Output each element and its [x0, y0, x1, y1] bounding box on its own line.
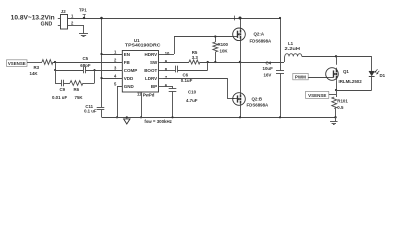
wire C4 branch	[280, 18, 282, 71]
svg-text:75K: 75K	[75, 95, 84, 100]
capacitor C9	[52, 80, 67, 100]
wire R3 to FB	[53, 62, 122, 64]
junction VDD	[100, 77, 102, 79]
svg-text:PWM: PWM	[295, 74, 306, 79]
svg-text:R3: R3	[34, 65, 40, 70]
svg-text:0.01 uF: 0.01 uF	[52, 95, 67, 100]
junction Vin-VDD	[100, 17, 103, 20]
transistor Q2B	[233, 93, 269, 108]
inductor L1	[285, 41, 302, 56]
wire ground rail	[102, 117, 336, 119]
svg-text:C6: C6	[183, 72, 189, 77]
wire C9 to R6	[64, 83, 71, 85]
svg-text:PwPd: PwPd	[143, 93, 155, 98]
wire COMP bar	[94, 70, 96, 83]
capacitor C11	[84, 104, 104, 117]
junction Q2 midpoint	[239, 61, 241, 63]
wire FB bar	[55, 62, 57, 83]
svg-text:COMP: COMP	[124, 68, 138, 73]
svg-text:0.5: 0.5	[337, 105, 344, 110]
svg-text:Q2:B: Q2:B	[252, 96, 263, 101]
wire SW row right	[200, 62, 284, 64]
capacitor C10	[169, 89, 198, 118]
wire Q2B source	[240, 105, 242, 117]
junction R100-SW	[214, 61, 216, 63]
ground triangle	[124, 116, 130, 124]
junction PwPd-rail	[140, 116, 142, 118]
wire BP pin	[164, 86, 173, 89]
resistor R5	[189, 50, 200, 64]
svg-text:J2: J2	[61, 9, 66, 14]
resistor R101	[332, 97, 349, 117]
svg-text:fsw = 300kHz: fsw = 300kHz	[144, 119, 172, 124]
svg-text:4.7uF: 4.7uF	[186, 98, 198, 103]
connector J2	[58, 9, 68, 29]
transistor Q1	[326, 68, 363, 84]
wire J2 pin2 to ground	[68, 25, 84, 34]
wire output to D1	[371, 56, 373, 71]
wire Q2B drain	[240, 62, 242, 93]
svg-text:68pF: 68pF	[80, 63, 91, 68]
svg-text:C9: C9	[60, 87, 66, 92]
junction R101-rail	[334, 116, 336, 118]
svg-text:10: 10	[165, 51, 170, 56]
svg-text:VDD: VDD	[124, 76, 134, 81]
svg-text:HDRV: HDRV	[145, 52, 158, 57]
resistor R3	[30, 60, 54, 76]
svg-text:VSENSE: VSENSE	[308, 93, 326, 98]
svg-text:FDS6898A: FDS6898A	[250, 38, 273, 43]
wire SW row	[164, 62, 190, 64]
junction FB bar comp row	[54, 69, 56, 71]
wire R6 to COMP bar	[83, 83, 95, 85]
wire COMP row left	[55, 70, 83, 72]
junction rail corner C4	[279, 17, 281, 19]
svg-text:IRLML2502: IRLML2502	[339, 79, 363, 84]
net flag VSENSE left	[7, 60, 43, 67]
svg-text:TPS40190DRC: TPS40190DRC	[125, 42, 161, 48]
wire VDD pin to branch	[102, 78, 123, 80]
svg-text:16V: 16V	[264, 73, 272, 78]
svg-text:EN: EN	[124, 52, 130, 57]
svg-text:14K: 14K	[30, 71, 39, 76]
junction Q2B-rail	[239, 116, 241, 118]
wire C6 to SW	[178, 62, 208, 71]
ground rail end	[330, 117, 338, 125]
svg-text:R100: R100	[218, 42, 229, 47]
wire Vin rail	[68, 18, 281, 20]
junction EN	[100, 53, 102, 55]
pin 1 label of J2	[71, 13, 74, 18]
svg-text:SW: SW	[150, 60, 158, 65]
svg-text:LDRV: LDRV	[145, 76, 157, 81]
svg-text:0.1 uF: 0.1 uF	[84, 108, 97, 113]
svg-text:3.3: 3.3	[192, 55, 199, 60]
svg-text:GND: GND	[41, 21, 53, 27]
svg-text:2.2uH: 2.2uH	[285, 46, 301, 51]
junction boot-SW	[207, 61, 209, 63]
wire LDRV to Q2B gate	[164, 78, 235, 99]
svg-text:Q1: Q1	[343, 69, 349, 74]
svg-text:D1: D1	[380, 73, 386, 78]
svg-text:C5: C5	[83, 56, 89, 61]
svg-text:VSENSE: VSENSE	[8, 61, 26, 66]
node FB junction	[54, 61, 56, 63]
capacitor C6	[176, 66, 193, 83]
svg-text:TP1: TP1	[79, 7, 87, 12]
capacitor C4	[263, 61, 285, 118]
resistor R100	[213, 37, 229, 63]
net flag VSENSE right	[306, 91, 337, 98]
ground input	[79, 34, 88, 37]
svg-text:FDS6898A: FDS6898A	[247, 102, 270, 107]
svg-text:U1: U1	[134, 38, 140, 43]
junction C4-rail	[279, 116, 281, 118]
svg-text:Q2:A: Q2:A	[254, 32, 265, 37]
wire BOOT pin	[164, 70, 176, 72]
svg-text:BOOT: BOOT	[144, 68, 157, 73]
label switching frequency	[144, 119, 172, 124]
svg-text:R101: R101	[337, 98, 348, 103]
net flag PWM	[293, 73, 327, 79]
junction GND-rail	[116, 116, 118, 118]
svg-text:C10: C10	[188, 90, 197, 95]
wire L1 to output	[302, 56, 372, 58]
resistor R6	[70, 81, 83, 100]
wire D1 to Q1 source node	[336, 77, 372, 91]
wire PwPd to ground rail	[141, 92, 143, 117]
net label GND input	[41, 21, 53, 27]
wire Q1 source	[336, 80, 338, 97]
wire VDD branch vertical	[101, 18, 103, 107]
junction COMP	[94, 69, 96, 71]
junction Q1 source node	[335, 89, 337, 91]
diode D1 LED	[369, 69, 386, 78]
wire Q2A drain	[240, 18, 242, 28]
transistor Q2A	[233, 28, 272, 43]
svg-text:BP: BP	[151, 84, 157, 89]
wire Q1 drain	[336, 56, 338, 65]
junction rail-Q2A	[235, 16, 242, 21]
pin 2 label of J2	[71, 21, 74, 26]
svg-text:R6: R6	[74, 87, 80, 92]
op-amp U1 controller TPS40190DRC	[114, 38, 170, 98]
junction C10-rail	[171, 116, 173, 118]
svg-text:10uF: 10uF	[263, 66, 274, 71]
svg-text:GND: GND	[124, 84, 135, 89]
net label Vin input voltage	[11, 16, 55, 22]
wire EN to VDD branch	[102, 54, 123, 56]
wire C5 to COMP pin	[85, 70, 122, 72]
svg-text:10K: 10K	[220, 49, 229, 54]
junction gate-R100	[214, 35, 216, 37]
svg-text:C4: C4	[266, 61, 272, 66]
test point TP1	[79, 7, 87, 19]
junction Q1 drain tap	[335, 55, 337, 57]
wire HDRV to Q2A gate	[164, 37, 233, 55]
svg-text:FB: FB	[124, 60, 131, 65]
wire comp lower row left	[55, 83, 61, 85]
wire SW to L1	[284, 56, 286, 62]
capacitor C5	[80, 56, 91, 73]
wire GND pin to rail	[117, 86, 122, 117]
wire Q2A source	[240, 41, 242, 62]
